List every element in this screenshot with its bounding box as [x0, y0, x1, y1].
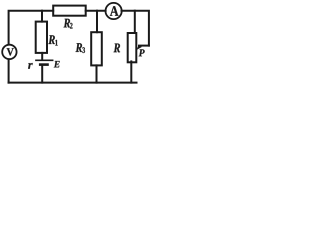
wire: R3 bottom to bottom wire — [96, 65, 98, 82]
background — [0, 0, 152, 88]
resistor R (rheostat) — [128, 33, 137, 62]
slider arrowhead P — [137, 46, 143, 50]
battery E short plate — [40, 63, 47, 66]
label R1 — [48, 35, 55, 44]
wire: top-left corner + top wire to R2 — [9, 11, 54, 45]
resistor R1 — [36, 22, 47, 53]
resistor R3 — [91, 32, 102, 65]
label R3 — [76, 43, 83, 52]
wire: R3 branch stub from top wire — [96, 11, 98, 33]
label R2 — [64, 19, 71, 28]
wire: R2 to ammeter — [86, 10, 106, 12]
label V (voltmeter) — [7, 48, 14, 55]
label E (battery emf) — [54, 61, 60, 67]
wire: R1 bottom to battery — [41, 53, 43, 60]
voltmeter V circle — [2, 45, 16, 59]
label r (internal resistance) — [28, 63, 33, 69]
battery E long plate — [36, 59, 53, 61]
resistor R2 — [53, 6, 85, 16]
wire: slider connector to P arrow — [139, 45, 149, 47]
wire: R branch stub from top wire — [134, 11, 136, 33]
label R (rheostat) — [114, 44, 121, 53]
wire: battery to bottom wire — [41, 66, 43, 83]
label A (ammeter) — [110, 6, 119, 15]
wire: R1 branch stub from top wire — [41, 11, 43, 22]
label P (slider) — [139, 49, 145, 56]
wire: bottom wire — [9, 82, 137, 84]
wire: voltmeter to bottom-left corner — [8, 59, 10, 82]
ammeter A circle — [106, 3, 122, 19]
wire: R bottom to bottom wire — [130, 61, 132, 82]
wire: ammeter to top-right corner, down right side — [122, 11, 149, 46]
